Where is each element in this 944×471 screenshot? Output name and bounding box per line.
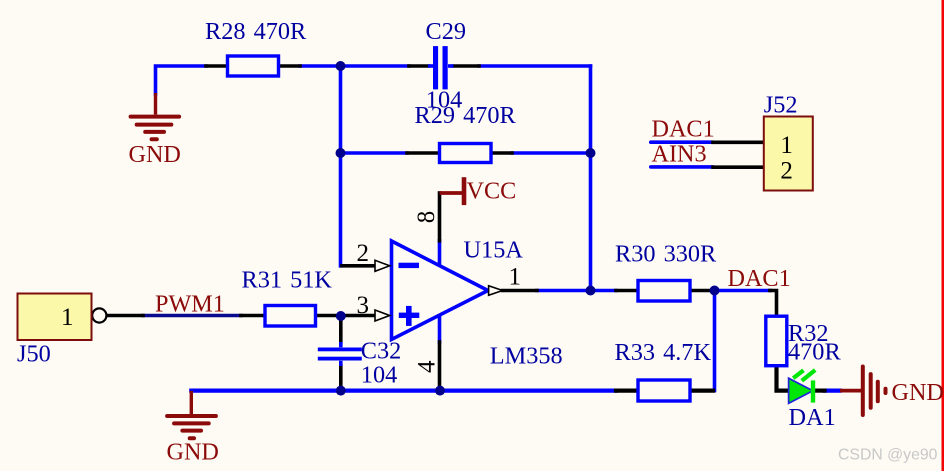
svg-text:DA1: DA1	[789, 404, 836, 431]
svg-text:1: 1	[509, 264, 522, 291]
svg-text:VCC: VCC	[467, 178, 517, 205]
svg-text:8: 8	[413, 211, 440, 224]
svg-text:J52: J52	[764, 92, 798, 119]
svg-text:CSDN @ye90: CSDN @ye90	[838, 447, 938, 464]
svg-text:2: 2	[780, 157, 793, 184]
svg-text:DAC1: DAC1	[652, 116, 715, 143]
svg-text:C29: C29	[426, 18, 467, 45]
svg-text:104: 104	[361, 362, 397, 389]
svg-text:1: 1	[61, 304, 74, 331]
svg-text:U15A: U15A	[464, 236, 524, 263]
svg-text:GND: GND	[892, 379, 944, 406]
svg-text:2: 2	[357, 240, 370, 267]
svg-text:PWM1: PWM1	[155, 290, 225, 317]
svg-text:4: 4	[413, 360, 440, 373]
svg-text:R29 470R: R29 470R	[415, 102, 517, 129]
svg-text:GND: GND	[129, 141, 181, 168]
svg-text:R33 4.7K: R33 4.7K	[615, 339, 712, 366]
svg-text:DAC1: DAC1	[728, 265, 791, 292]
svg-text:R28 470R: R28 470R	[205, 18, 307, 45]
svg-text:AIN3: AIN3	[652, 140, 707, 167]
svg-text:470R: 470R	[788, 338, 841, 365]
svg-text:1: 1	[780, 132, 793, 159]
svg-text:GND: GND	[167, 439, 219, 466]
svg-text:J50: J50	[17, 340, 51, 367]
svg-text:LM358: LM358	[490, 343, 563, 370]
svg-text:R31 51K: R31 51K	[242, 267, 333, 294]
svg-text:3: 3	[357, 292, 370, 319]
svg-text:R30 330R: R30 330R	[615, 241, 717, 268]
